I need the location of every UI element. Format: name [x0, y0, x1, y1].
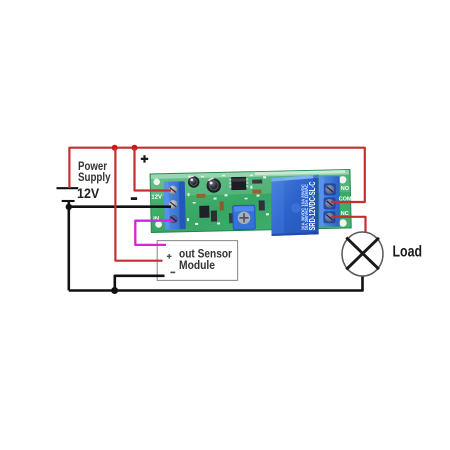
terminal screw IN — [169, 214, 178, 223]
wire relay NC to load — [331, 217, 366, 233]
mounting hole top-left — [153, 178, 160, 185]
capacitor C1 — [188, 176, 200, 188]
terminal screw COM — [324, 197, 336, 209]
capacitor C2 — [206, 178, 221, 193]
resistor R2 — [220, 201, 224, 210]
resistor R4 — [252, 179, 262, 183]
mounting hole top-right — [339, 176, 346, 183]
load lamp — [342, 232, 383, 276]
sensor plus mark — [167, 254, 172, 259]
resistor R3 — [229, 213, 234, 223]
terminal screw NO — [324, 183, 336, 195]
svg-text:SRD-12VDC-SL-C: SRD-12VDC-SL-C — [308, 181, 317, 230]
label plus — [141, 155, 148, 162]
svg-text:10A 30VDC 10A 28VDC: 10A 30VDC 10A 28VDC — [300, 184, 305, 230]
svg-text:Load: Load — [393, 244, 423, 261]
resistor R5 — [252, 189, 261, 193]
ground bus wire — [69, 276, 363, 291]
IC U1 timer — [231, 177, 246, 190]
svg-text:NO: NO — [341, 186, 350, 192]
sensor module box — [157, 241, 237, 281]
wire sensor out to IN terminal — [135, 221, 173, 245]
trimmer potentiometer VR1 — [233, 205, 256, 229]
PCB relay module board — [150, 169, 351, 232]
resistor R6 — [259, 200, 265, 210]
svg-text:Supply: Supply — [78, 170, 111, 184]
silkscreen pads — [186, 174, 269, 225]
output terminal block J2 — [320, 176, 340, 226]
mounting hole bottom-right — [339, 219, 346, 226]
battery BT1 12V positive plate — [57, 187, 79, 189]
wire battery positive to top bus to relay COM — [69, 148, 364, 202]
label minus — [131, 197, 137, 200]
resistor R1 — [196, 194, 205, 198]
junction node D — [111, 287, 118, 294]
terminal screw NC — [323, 211, 335, 223]
input terminal block J1 — [164, 181, 186, 229]
terminal screw 12V — [168, 185, 177, 194]
diode D1 — [211, 210, 217, 221]
wire node A to sensor module plus — [115, 148, 162, 261]
wire node B to 12V terminal — [135, 148, 172, 191]
junction node B — [132, 145, 138, 151]
wire node C to GND terminal — [69, 205, 171, 208]
wire sensor module minus to node D — [115, 276, 165, 291]
relay K1 — [272, 175, 319, 236]
wire battery negative down to ground bus — [68, 201, 71, 290]
junction node C — [66, 204, 72, 210]
svg-text:Module: Module — [179, 258, 215, 272]
battery BT1 negative plate — [62, 200, 75, 202]
transistor Q1 — [199, 206, 209, 218]
terminal screw GND — [169, 200, 178, 209]
mounting hole bottom-left — [155, 221, 162, 228]
junction node A — [112, 145, 118, 151]
svg-text:12V: 12V — [77, 186, 99, 201]
board top light reflection — [151, 170, 350, 197]
sensor minus mark — [170, 272, 175, 274]
svg-text:12V: 12V — [151, 195, 162, 201]
